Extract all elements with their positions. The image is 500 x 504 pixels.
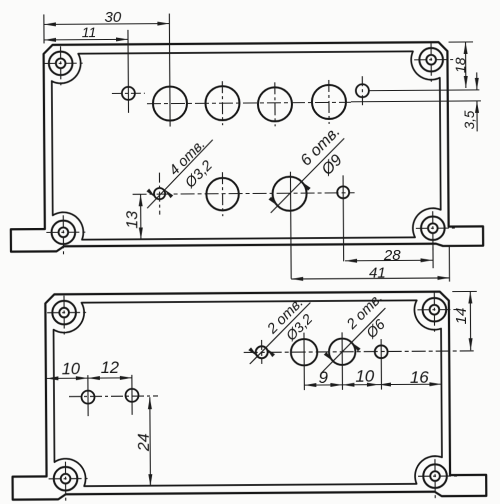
svg-text:3,5: 3,5 xyxy=(462,110,477,129)
svg-text:18: 18 xyxy=(452,57,468,73)
svg-text:28: 28 xyxy=(383,247,401,264)
svg-text:14: 14 xyxy=(453,308,470,325)
svg-text:10: 10 xyxy=(355,367,375,386)
svg-text:12: 12 xyxy=(101,359,119,377)
svg-text:10: 10 xyxy=(62,360,81,378)
svg-text:41: 41 xyxy=(369,264,386,281)
svg-text:24: 24 xyxy=(136,433,153,452)
svg-text:11: 11 xyxy=(82,24,97,40)
svg-text:16: 16 xyxy=(410,368,430,387)
svg-text:13: 13 xyxy=(124,211,141,229)
svg-text:30: 30 xyxy=(104,9,121,26)
